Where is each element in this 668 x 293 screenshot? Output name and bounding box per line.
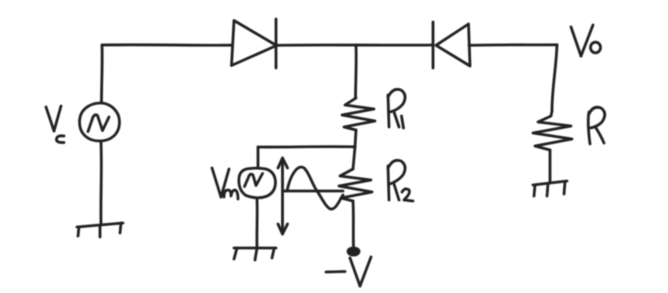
terminal dot -V [348, 248, 359, 255]
wire diode D2 to Vo node [469, 43, 557, 46]
wire Vm to ground [256, 199, 259, 247]
label R2 [388, 160, 413, 201]
annotation sine waveform axis [284, 190, 343, 193]
source Vm [239, 168, 276, 198]
wire Vc to ground [99, 142, 102, 225]
wire R1 to junction [355, 130, 356, 147]
diode D1 [232, 19, 277, 68]
wire left vertical to Vc [100, 45, 103, 103]
wire Vo node down to R [552, 45, 557, 111]
label Vm [212, 168, 238, 199]
wire R to ground [549, 150, 552, 183]
label Vc [46, 106, 64, 143]
annotation double arrow [278, 158, 288, 234]
wire between diodes [277, 44, 433, 47]
label R1 [388, 89, 405, 128]
label R value [588, 107, 605, 144]
resistor R2 [339, 169, 372, 201]
ground under R [533, 181, 567, 196]
ground under Vm [234, 248, 276, 260]
annotation sine waveform [287, 167, 343, 209]
node junction top of R1 [354, 45, 357, 98]
wire top-left horizontal [102, 43, 232, 46]
node Vo label [571, 25, 601, 56]
resistor R [533, 111, 572, 150]
wire R2 to -V terminal [352, 201, 355, 248]
resistor R1 [342, 98, 375, 130]
wire junction to Vm [258, 145, 355, 148]
wire junction down to R2 [353, 147, 355, 169]
label -V [326, 257, 371, 286]
wire Vm corner vertical [257, 147, 260, 168]
ground under Vc [77, 223, 123, 237]
source Vc [80, 103, 120, 141]
diode D2 [433, 22, 470, 68]
